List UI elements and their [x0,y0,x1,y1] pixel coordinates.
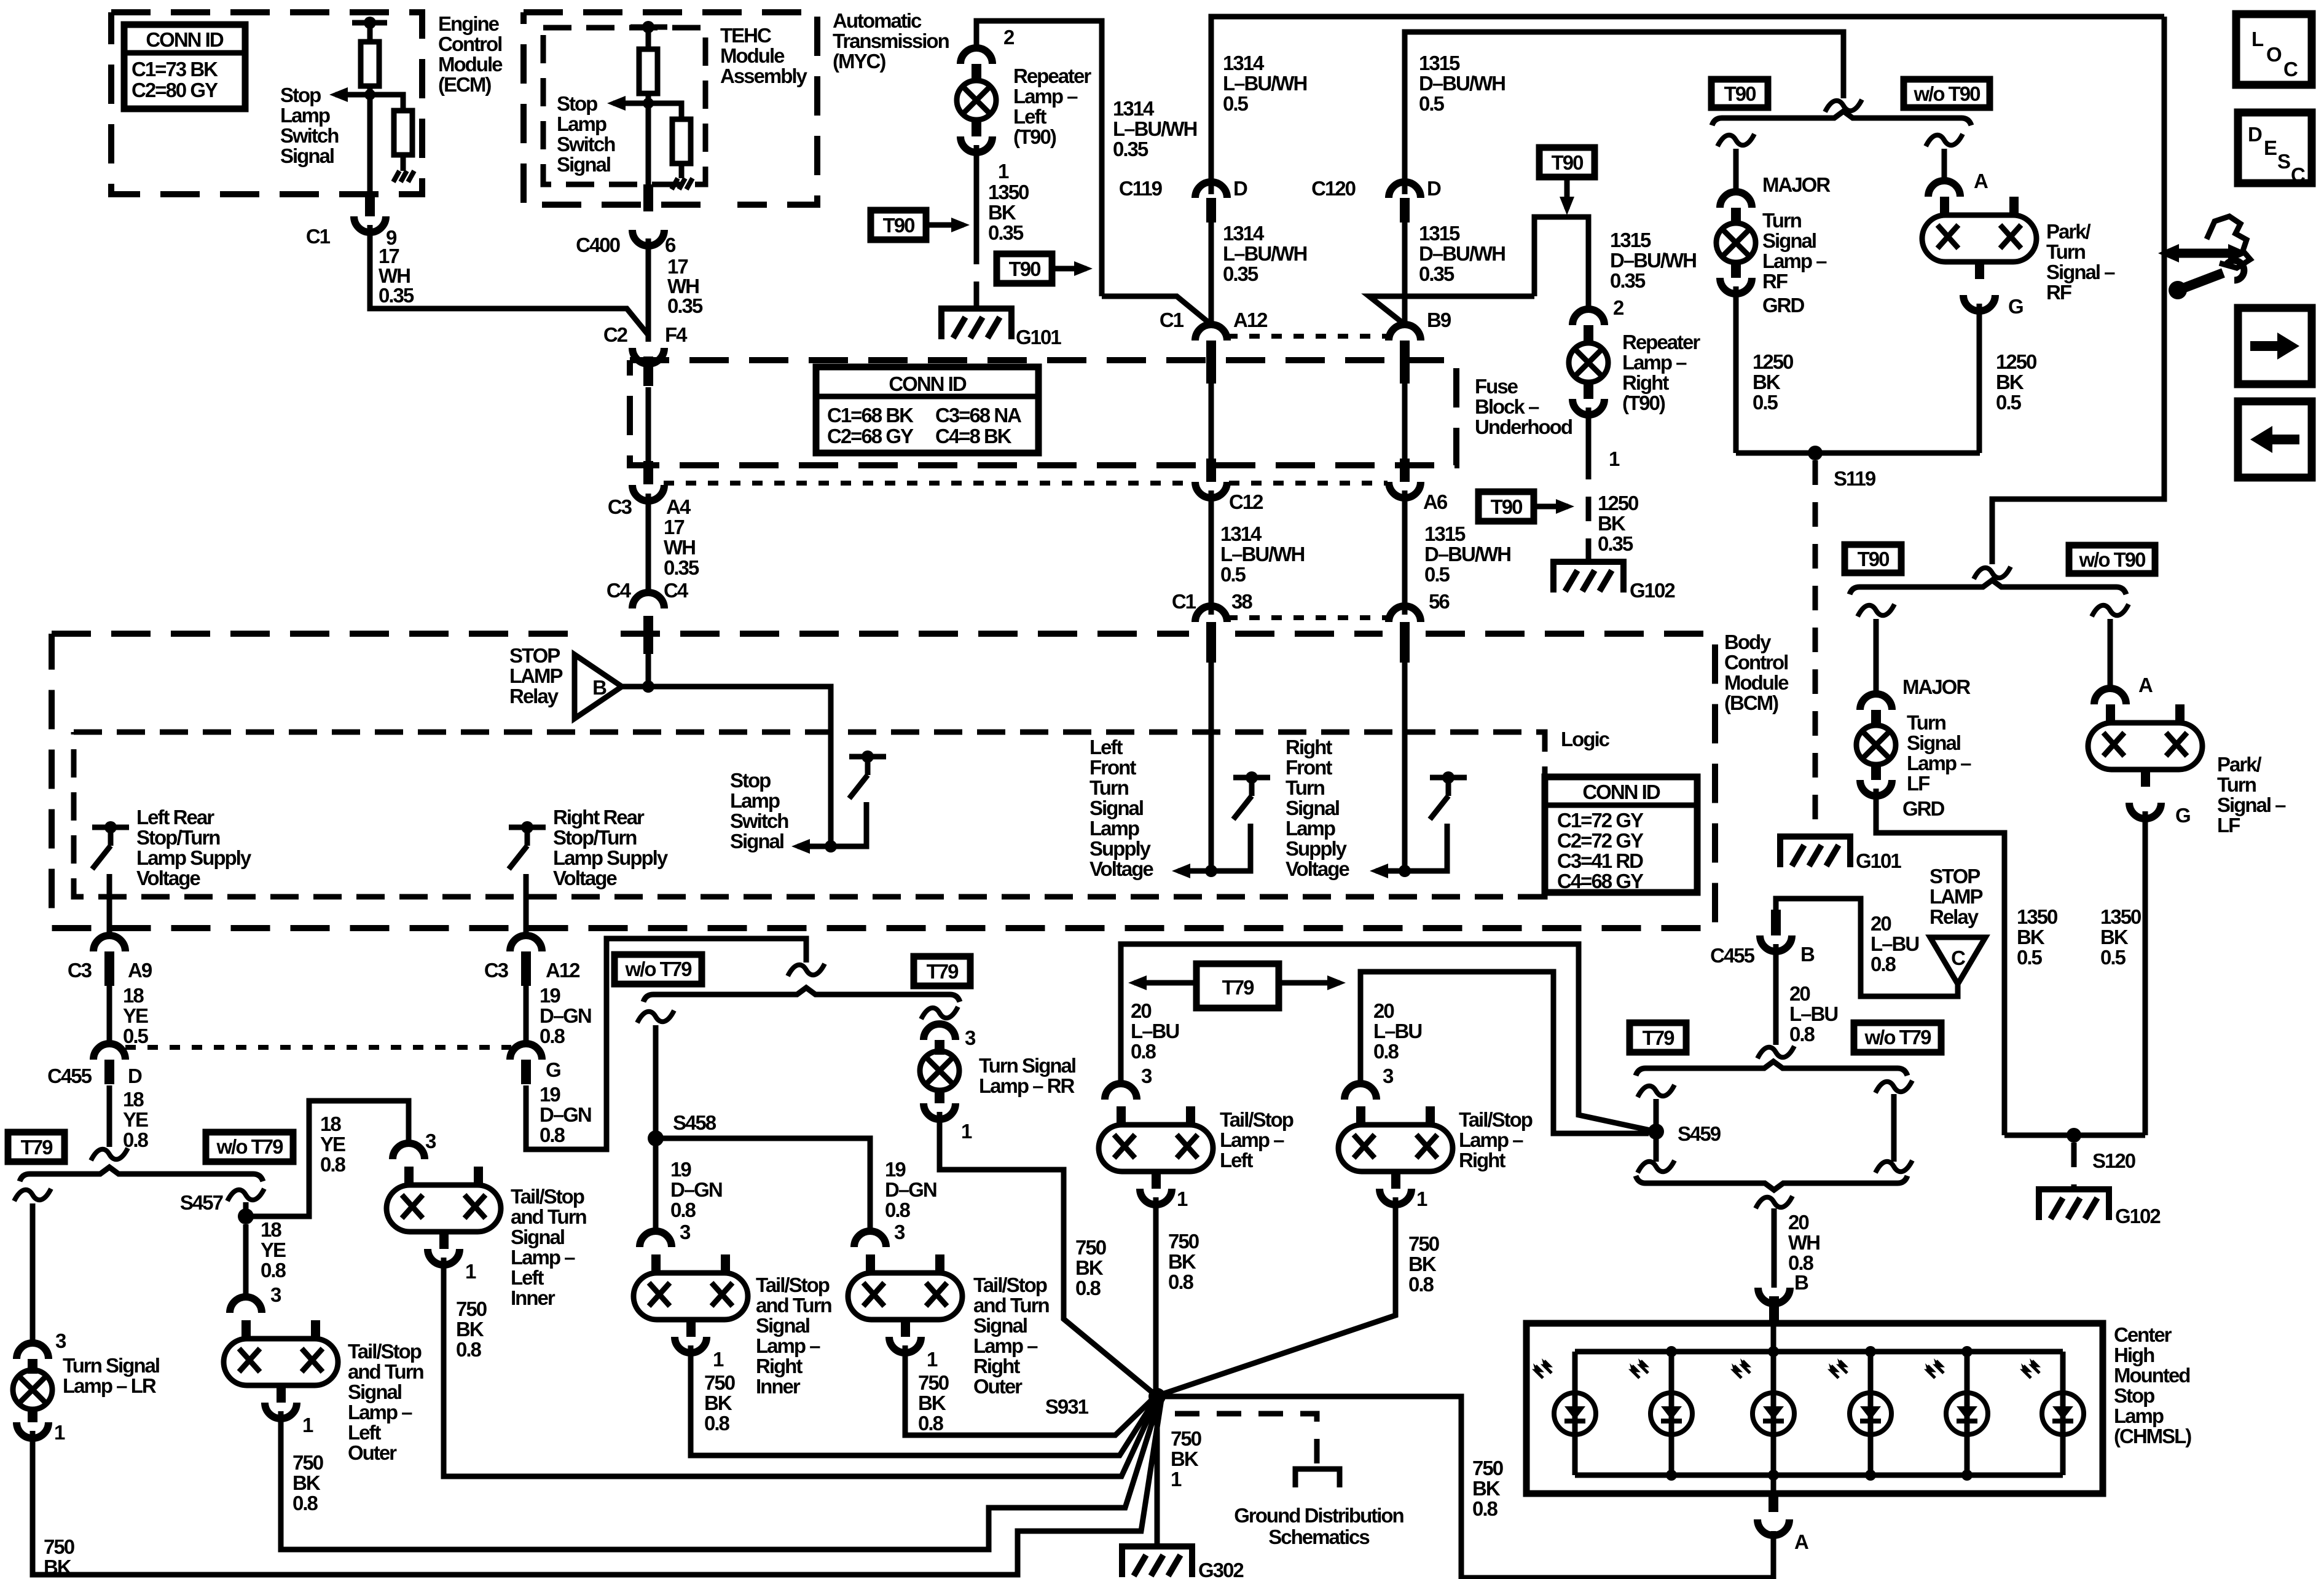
wire inside fuse block [646,387,651,462]
svg-text:Repeater: Repeater [1622,331,1700,353]
svg-text:Lamp – LR: Lamp – LR [63,1374,157,1397]
wire: feed into CHMSL [1771,1323,1776,1352]
wire: turn signal LR feed [30,1203,36,1340]
svg-text:1315: 1315 [1610,229,1651,251]
svg-text:750: 750 [292,1451,323,1474]
svg-text:Logic: Logic [1561,728,1610,750]
svg-text:Signal: Signal [973,1314,1027,1337]
svg-text:0.8: 0.8 [1131,1040,1156,1063]
svg-text:L–BU/WH: L–BU/WH [1223,72,1306,95]
svg-text:BK: BK [1408,1253,1437,1275]
break on right branch [1926,134,1963,146]
svg-text:F4: F4 [665,323,688,346]
svg-text:0.8: 0.8 [540,1025,565,1047]
wire: supply inner run [1360,972,1649,1133]
svg-text:Supply: Supply [1089,837,1152,860]
svg-text:1350: 1350 [988,181,1029,203]
connector C455/G [510,1044,542,1060]
svg-text:C1: C1 [1160,309,1184,331]
svg-text:0.5: 0.5 [2100,946,2126,969]
wire: park LF ground to S120 [2143,811,2148,1135]
svg-text:(CHMSL): (CHMSL) [2114,1425,2191,1447]
switch: right front turn supply [1430,771,1467,868]
wire: 1250 BK 0.5 (park ground) [1977,304,1982,453]
svg-text:A12: A12 [546,959,580,982]
svg-text:C4=68 GY: C4=68 GY [1557,870,1644,892]
wire down to C455 G [524,983,529,1045]
svg-text:T90: T90 [1724,82,1756,105]
connector B (CHMSL) [1758,1288,1790,1304]
svg-text:A12: A12 [1233,309,1268,331]
svg-text:Turn: Turn [1907,711,1946,734]
svg-text:6: 6 [665,234,676,256]
svg-text:0.5: 0.5 [1223,92,1249,115]
svg-text:T90: T90 [1491,495,1523,518]
wire: ECM pull-up top bar [352,20,387,26]
brace: T90 / w-o T90 alternatives (RF) [1712,111,1971,125]
svg-text:C1=72 GY: C1=72 GY [1557,809,1644,832]
svg-text:A4: A4 [666,495,691,518]
svg-text:GRD: GRD [1902,797,1945,820]
svg-text:High: High [2114,1344,2154,1366]
svg-text:0.8: 0.8 [1373,1040,1399,1063]
svg-text:Transmission: Transmission [833,30,949,52]
wire: C455 G to rear right brace (wrap) [526,939,806,1149]
svg-text:Front: Front [1089,756,1136,779]
wire: jog from 1315 branch into B9 [1369,296,1534,325]
svg-text:BK: BK [1472,1477,1501,1500]
svg-text:0.5: 0.5 [1424,563,1450,586]
svg-text:20: 20 [1789,982,1810,1005]
ground (ECM internal) [393,171,414,182]
svg-text:B9: B9 [1427,309,1451,331]
svg-text:S457: S457 [180,1191,223,1214]
svg-text:0.35: 0.35 [1610,269,1646,292]
svg-text:C: C [1951,947,1965,969]
svg-text:Lamp – RR: Lamp – RR [979,1074,1075,1097]
svg-text:20: 20 [1871,912,1891,935]
svg-text:1350: 1350 [2017,905,2057,928]
svg-text:C4: C4 [664,579,689,602]
connector 3 (right inner) [640,1231,672,1247]
wire to resistor 2 [370,95,403,111]
wire: 1314 through fuse block down [1209,369,1214,460]
svg-text:3: 3 [55,1329,66,1352]
svg-text:Right: Right [1459,1149,1505,1171]
wire: right repeater feed jog [1534,217,1588,310]
svg-text:L–BU: L–BU [1131,1020,1179,1042]
svg-text:1: 1 [1609,447,1620,470]
svg-text:Stop: Stop [280,84,321,106]
lamp: Turn Signal Lamp LR [13,1370,52,1409]
svg-text:Lamp –: Lamp – [1907,752,1971,774]
svg-text:MAJOR: MAJOR [1902,675,1971,698]
lamp: Tail/Stop and Turn Signal Lamp Right Outer [848,1254,962,1337]
wire: relay B to stop lamp switch [622,687,831,846]
lamp: Repeater Lamp Left - top connector [960,48,992,64]
svg-text:Lamp: Lamp [1286,817,1335,840]
svg-text:19: 19 [540,984,560,1007]
LED 5 [1925,1358,1988,1435]
svg-text:Lamp –: Lamp – [756,1334,820,1357]
svg-text:750: 750 [1171,1427,1201,1450]
svg-text:BK: BK [44,1556,72,1578]
svg-text:1350: 1350 [2100,905,2141,928]
connector G (LF) [2129,803,2161,819]
w/o T79 branch [1875,1081,1912,1093]
CONN ID table (ECM) [124,25,245,109]
w/o T79 tag [1854,1023,1941,1052]
svg-text:19: 19 [540,1083,560,1106]
svg-text:B: B [1800,943,1815,966]
svg-text:750: 750 [1408,1232,1439,1255]
lamp: Repeater Lamp Left bulb [957,81,996,120]
svg-text:0.35: 0.35 [667,294,703,317]
svg-text:Lamp –: Lamp – [1622,351,1687,374]
svg-text:0.35: 0.35 [1419,262,1454,285]
connector (Turn Signal Lamp RF pin MAJOR) [1720,192,1752,208]
svg-text:CONN ID: CONN ID [146,28,224,51]
switch: stop lamp switch (internal) [849,750,886,848]
ground G101 [941,309,1011,339]
wire: TEHC pull-up top bar [630,25,667,30]
svg-text:Inner: Inner [756,1375,801,1398]
svg-text:Relay: Relay [1929,905,1979,928]
brace: closing (to CHMSL wire) [1636,1176,1907,1190]
svg-text:C1: C1 [1172,590,1196,613]
svg-text:C: C [2283,58,2298,81]
lamp: Repeater Lamp Right - top connector [1572,309,1604,325]
svg-text:STOP: STOP [1929,865,1980,888]
dashed wire to G102 [1586,455,1592,561]
svg-text:RF: RF [1762,270,1788,293]
svg-text:Lamp: Lamp [1089,817,1139,840]
svg-text:Signal: Signal [511,1226,564,1248]
svg-text:BK: BK [2100,926,2129,948]
svg-text:Turn Signal: Turn Signal [63,1354,159,1377]
svg-text:1250: 1250 [1598,492,1638,514]
svg-text:Lamp –: Lamp – [1220,1128,1284,1151]
svg-text:L–BU/WH: L–BU/WH [1113,117,1196,140]
svg-text:CONN ID: CONN ID [1582,781,1660,803]
svg-text:S931: S931 [1045,1395,1089,1418]
svg-text:Signal –: Signal – [2217,793,2286,816]
sidebar: DESC box [2238,112,2312,186]
svg-text:C3: C3 [484,959,509,982]
svg-text:Stop/Turn: Stop/Turn [136,826,220,849]
wire: S931 to CHMSL return [1157,1396,1773,1578]
svg-text:Stop: Stop [557,92,597,115]
svg-text:0.8: 0.8 [292,1492,318,1514]
wire into BCM [646,648,651,687]
wire: 20 WH 0.8 to CHMSL [1756,1196,1792,1208]
svg-text:1: 1 [54,1421,65,1444]
connector C455/B: cup and stub [1771,910,1781,935]
svg-text:0.5: 0.5 [1220,563,1246,586]
connector 1 below [428,1249,460,1265]
svg-text:0.8: 0.8 [1871,953,1896,975]
svg-text:Block –: Block – [1475,395,1539,418]
wire: C455 B loop to relay C [1776,899,1958,996]
module box: Engine Control Module (ECM) [111,12,422,194]
svg-text:38: 38 [1231,590,1252,613]
svg-text:3: 3 [1383,1065,1394,1087]
wire: right outer ground to S931 [905,1345,1155,1435]
svg-text:1315: 1315 [1419,222,1460,245]
svg-text:C3: C3 [608,495,632,518]
connector 1 below [265,1403,297,1419]
svg-text:0.8: 0.8 [1168,1270,1194,1293]
svg-text:1250: 1250 [1753,350,1793,373]
svg-text:LAMP: LAMP [509,664,562,687]
wire: CHMSL return out [1771,1475,1776,1494]
svg-text:C2=68 GY: C2=68 GY [827,425,914,447]
break on left branch [1717,134,1754,146]
lamp: Tail/Stop Lamp Left [1099,1106,1213,1189]
svg-text:Switch: Switch [557,133,615,156]
sidebar: right arrow box [2238,308,2312,384]
connector C4 / C4: cup and stub [632,593,664,608]
svg-text:T90: T90 [1009,258,1041,280]
wire: left rear lead to C3/A9 [107,875,112,937]
svg-text:S120: S120 [2092,1149,2135,1172]
svg-text:BK: BK [1598,512,1626,535]
svg-text:0.8: 0.8 [670,1199,696,1221]
lamp: Tail/Stop and Turn Signal Lamp Left Inner [387,1167,501,1249]
svg-text:CONN ID: CONN ID [889,372,967,395]
svg-text:Signal: Signal [280,144,334,167]
lamp: Repeater Lamp Right bulb [1569,343,1608,382]
splice S459 [1648,1124,1664,1140]
LED 1 [1533,1358,1596,1435]
svg-text:Right: Right [973,1355,1020,1377]
svg-text:T79: T79 [1222,976,1255,999]
svg-text:Right: Right [1622,371,1669,394]
S459 lower lead [1654,1132,1659,1162]
svg-text:A: A [2138,674,2153,696]
svg-text:Stop: Stop [730,769,771,792]
svg-text:Turn: Turn [2046,240,2086,263]
lamp: Tail/Stop and Turn Signal Lamp Right Inner [634,1254,748,1337]
svg-text:3: 3 [425,1130,436,1152]
wire down to C1/38 [1209,490,1214,615]
module box: Center High Mounted Stop Lamp (CHMSL) [1526,1323,2103,1494]
wire right branch [1942,149,1947,182]
svg-text:w/o T90: w/o T90 [1913,82,1980,105]
svg-text:Signal: Signal [1907,731,1960,754]
svg-text:0.8: 0.8 [704,1412,730,1435]
svg-text:Signal: Signal [1286,797,1339,819]
brace: T79 / w-o T79 (left rear) [20,1167,263,1181]
break right branch (to S457) [227,1189,264,1201]
sidebar: left arrow box [2238,401,2312,478]
svg-text:YE: YE [261,1238,286,1261]
wire: 17 WH 0.35 [646,238,651,342]
svg-text:0.8: 0.8 [1408,1273,1434,1296]
svg-text:0.35: 0.35 [664,556,699,579]
svg-text:O: O [2266,43,2282,66]
connector 1 below [1380,1189,1411,1205]
splice S458 [648,1130,664,1146]
svg-text:C1=73 BK: C1=73 BK [132,58,218,81]
T90 tag (RF) [1711,79,1768,108]
svg-text:0.35: 0.35 [379,284,414,307]
wire left branch [1733,149,1739,193]
svg-text:L: L [2251,28,2264,50]
splice S931 [1148,1388,1166,1405]
wire: RR ground to S931 [940,1112,1153,1393]
svg-text:E: E [2264,136,2277,159]
svg-text:17: 17 [664,516,684,538]
svg-text:A9: A9 [128,959,152,982]
svg-text:C3=68 NA: C3=68 NA [935,404,1021,427]
wire + node + arrow: Stop Lamp Switch Signal [798,802,866,846]
resistor (ECM pull-down) [394,111,412,155]
svg-text:Turn: Turn [2217,773,2256,796]
svg-text:3: 3 [1141,1065,1152,1087]
svg-text:Ground Distribution: Ground Distribution [1234,1504,1403,1527]
svg-text:Control: Control [1724,651,1788,674]
svg-text:Lamp: Lamp [2114,1404,2164,1427]
wire: 17 WH 0.35 from ECM [370,225,648,335]
wire: left inner ground to S931 [444,1258,1159,1476]
module box: Fuse Block Underhood [630,360,1456,465]
LED 6 [2021,1358,2084,1435]
svg-text:T90: T90 [1858,548,1890,570]
svg-text:Module: Module [720,44,785,67]
svg-text:3: 3 [894,1221,905,1243]
svg-text:G302: G302 [1198,1559,1244,1579]
svg-text:Lamp –: Lamp – [1762,250,1827,272]
svg-text:YE: YE [123,1004,148,1027]
svg-text:1314: 1314 [1220,522,1262,545]
brace: T79 / w-o T79 alternatives [1636,1061,1907,1076]
lamp: Park/Turn Signal RF (dual filament) [1922,197,2036,279]
svg-text:Lamp –: Lamp – [1013,85,1078,108]
dashed pointer to ground distribution schematics [1175,1414,1317,1468]
svg-text:2: 2 [1613,296,1624,319]
svg-text:750: 750 [1075,1236,1106,1259]
w/o T79 tag (right rear) [614,955,702,984]
svg-text:G: G [2008,295,2023,318]
svg-text:Turn: Turn [1762,209,1802,232]
ground G101 (front) [1780,837,1850,867]
svg-text:G102: G102 [1630,579,1675,602]
svg-text:C2=80 GY: C2=80 GY [132,79,218,101]
svg-text:BK: BK [1996,371,2024,393]
svg-text:D–BU/WH: D–BU/WH [1419,242,1505,265]
svg-text:1: 1 [927,1348,938,1371]
svg-text:Park/: Park/ [2046,220,2091,243]
svg-text:and Turn: and Turn [348,1360,424,1383]
svg-text:D: D [128,1065,142,1087]
wire: S458 right to right outer [656,1138,870,1232]
connector 3 (left inner) [393,1143,425,1159]
svg-text:Tail/Stop: Tail/Stop [511,1185,584,1208]
svg-text:G101: G101 [1016,326,1061,348]
svg-text:Signal: Signal [1762,229,1816,252]
svg-text:C120: C120 [1311,177,1356,200]
splice S457 [238,1208,254,1224]
CONN ID table (fuse block) [816,367,1038,453]
wire below lamp [974,145,979,240]
svg-text:0.8: 0.8 [1789,1023,1815,1045]
svg-text:A6: A6 [1423,490,1448,513]
wire: right inner ground to S931 [691,1345,1157,1455]
T79 tag (right rear) [914,956,970,986]
svg-text:1: 1 [998,160,1009,183]
svg-text:G101: G101 [1856,849,1901,872]
wire: supply to tail/stop lamps (outer run) [1654,1129,1659,1135]
connector C3/A12: cup and stub [510,935,542,951]
svg-text:BK: BK [918,1392,946,1414]
svg-text:0.8: 0.8 [320,1153,346,1176]
svg-text:Tail/Stop: Tail/Stop [1220,1108,1294,1131]
w/o T90 tag (RF) [1904,79,1990,108]
svg-text:Park/: Park/ [2217,753,2262,776]
connector C1 pin 9: stub and cup [365,192,375,216]
svg-text:BK: BK [1168,1250,1196,1273]
T90 tag with down arrow (right repeater) [1539,148,1595,215]
svg-text:w/o T79: w/o T79 [216,1135,283,1158]
svg-text:Signal: Signal [348,1380,401,1403]
node [364,89,375,100]
svg-text:T90: T90 [1552,151,1584,174]
svg-text:0.5: 0.5 [1753,391,1778,414]
svg-text:20: 20 [1373,999,1394,1022]
svg-text:C3: C3 [68,959,92,982]
switch: left rear stop/turn supply [92,821,129,918]
svg-text:Control: Control [438,33,501,55]
svg-text:Lamp Supply: Lamp Supply [136,846,252,869]
svg-text:Voltage: Voltage [1286,857,1349,880]
break left branch [1858,604,1894,616]
switch: left front turn supply [1233,771,1270,868]
connector B9 [1389,325,1421,341]
svg-text:Schematics: Schematics [1268,1526,1369,1548]
svg-text:YE: YE [123,1108,148,1131]
break right branch (RR lamp) [921,1007,958,1019]
wire: jog from repeater-left feed into C1/A12 [1102,296,1211,325]
connector 1 below [675,1337,707,1353]
svg-text:C2=72 GY: C2=72 GY [1557,829,1644,852]
svg-text:w/o T79: w/o T79 [624,958,692,980]
svg-text:D: D [2248,123,2262,146]
svg-text:D: D [1427,177,1441,200]
svg-text:56: 56 [1429,590,1450,613]
svg-text:D–GN: D–GN [540,1004,591,1027]
svg-text:D–BU/WH: D–BU/WH [1419,72,1505,95]
svg-text:(ECM): (ECM) [438,73,491,96]
svg-text:18: 18 [320,1112,341,1135]
svg-text:BK: BK [2017,926,2045,948]
wire: C455 D to rear T79 brace [107,1085,112,1147]
break [1974,567,2011,579]
wire: S457 down to left outer [243,1224,249,1294]
svg-text:and Turn: and Turn [756,1294,832,1317]
svg-text:Right Rear: Right Rear [553,806,645,829]
resistor (ECM pull-up) [361,42,379,86]
LED 3 [1732,1358,1794,1435]
svg-text:Inner: Inner [511,1286,555,1309]
svg-text:750: 750 [918,1371,949,1394]
svg-text:1314: 1314 [1113,97,1155,120]
connector A [1757,1519,1789,1535]
svg-text:0.35: 0.35 [1598,532,1633,555]
svg-text:Left: Left [1220,1149,1254,1171]
svg-text:T79: T79 [1643,1026,1675,1049]
svg-text:WH: WH [664,536,695,559]
